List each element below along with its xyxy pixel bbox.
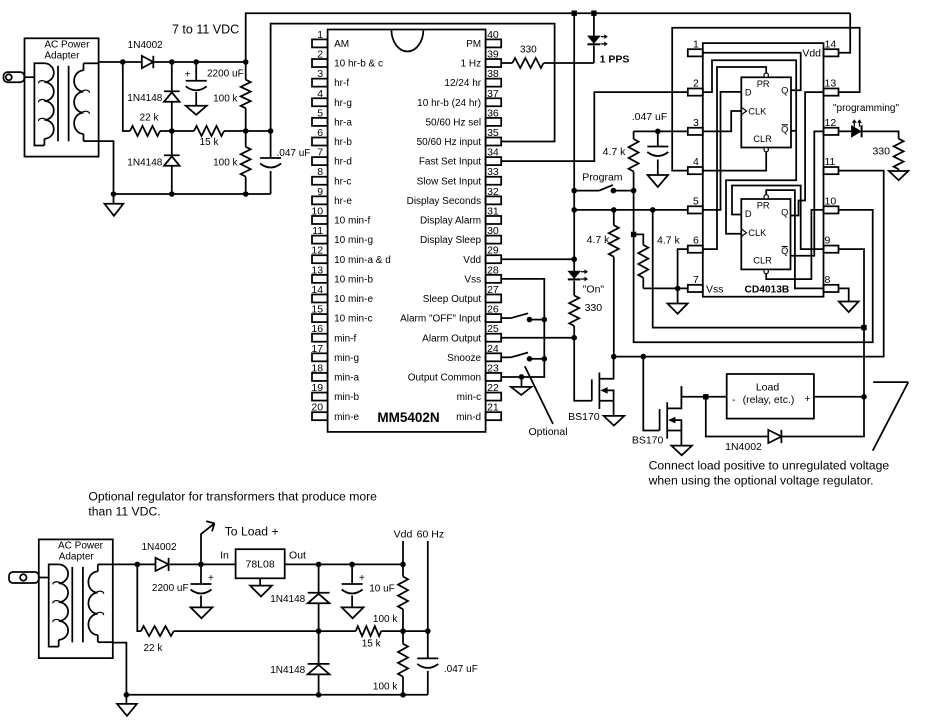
pin 11 U1 label 10 min-g [334, 235, 373, 246]
wire T1 secondary top to rectifier [99, 61, 142, 63]
svg-text:10 hr-b & c: 10 hr-b & c [334, 59, 383, 70]
svg-text:22 k: 22 k [140, 113, 160, 124]
svg-text:Vdd: Vdd [802, 48, 821, 60]
pin 2 U1 box [312, 59, 328, 67]
pin 23 U1 box [486, 373, 502, 381]
wire U2 pin5 to D1 [703, 92, 742, 210]
svg-text:4: 4 [317, 88, 323, 100]
IC U2 CD4013B body [703, 43, 824, 297]
pin 10 U1 box [312, 216, 328, 224]
label R10 330 [872, 146, 890, 158]
svg-text:22 k: 22 k [143, 643, 163, 654]
svg-text:1 Hz: 1 Hz [461, 59, 482, 70]
pin 16 U1 number [311, 323, 323, 335]
node top rail program branch [572, 11, 577, 16]
label C5 10 uF [369, 584, 395, 595]
wire D6 lead [318, 564, 320, 592]
svg-text:33: 33 [487, 166, 499, 178]
svg-text:26: 26 [487, 304, 499, 316]
pin 40 U1 label PM [466, 39, 481, 50]
pin 20 U1 label min-e [334, 412, 359, 423]
diode D2 1N4148 [164, 91, 180, 102]
svg-text:50/60 Hz input: 50/60 Hz input [417, 137, 482, 148]
capacitor C4 2200 uF [191, 564, 215, 607]
svg-text:20: 20 [311, 402, 323, 414]
resistor R8 4.7 k [634, 234, 649, 288]
label R8 4.7 k [657, 235, 681, 247]
to load arrow [201, 521, 215, 564]
svg-text:CLK: CLK [748, 228, 767, 238]
pin 13 U2 number [825, 78, 837, 90]
label Load [756, 381, 780, 393]
svg-text:34: 34 [487, 147, 499, 159]
pin 3 U1 label hr-f [334, 78, 349, 89]
diode D4 1N4002 [768, 430, 781, 443]
label R3 15 k [200, 137, 220, 148]
svg-text:10 min-a & d: 10 min-a & d [334, 255, 391, 266]
pin 5 U1 label hr-a [334, 117, 352, 128]
pin 12 U1 box [312, 255, 328, 263]
svg-text:100 k: 100 k [213, 94, 238, 105]
wire U2 pin1 to Q1 [703, 53, 801, 90]
node top rail LED branch [591, 11, 596, 16]
pin 10 U1 label 10 min-f [334, 216, 370, 227]
LED LED3 programming [839, 125, 862, 137]
svg-text:Vdd: Vdd [394, 529, 413, 541]
node filter +V C [243, 59, 249, 65]
node rail R14 [400, 692, 406, 698]
wire D7 lead [318, 631, 320, 664]
pin 5 U1 number [317, 107, 323, 119]
svg-text:35: 35 [487, 127, 499, 139]
label R13 15 k [362, 639, 382, 650]
wire U2 pin12 to Q2bar [791, 131, 824, 255]
pin 36 U1 box [486, 118, 502, 126]
svg-text:15 k: 15 k [200, 137, 220, 148]
svg-text:3: 3 [317, 68, 323, 80]
pin 30 U1 number [487, 225, 499, 237]
wire osc mid to cap node [246, 130, 271, 132]
wire 22k branch down [123, 62, 130, 131]
svg-text:"programming": "programming" [833, 103, 899, 114]
pin 25 U1 label Alarm Output [422, 333, 481, 344]
pin 33 U1 number [487, 166, 499, 178]
pin 18 U1 number [311, 362, 323, 374]
pin 10 U2 number [825, 195, 837, 207]
diode D3 1N4148 [164, 155, 180, 166]
resistor R5 330 [512, 58, 543, 68]
label U2 Vss [706, 283, 724, 295]
wire 22k line [137, 564, 141, 631]
pin 26 U1 label Alarm "OFF" Input [400, 314, 481, 325]
svg-text:Vss: Vss [464, 274, 481, 285]
label D3 1N4148 [127, 158, 162, 169]
wire S2 to Vss line [530, 358, 545, 360]
svg-text:4: 4 [693, 156, 699, 168]
pin 26 U1 number [487, 304, 499, 316]
pin 15 U1 number [311, 304, 323, 316]
pin 1 U2 box [688, 49, 703, 56]
pin 4 U2 box [688, 167, 703, 174]
T2 label [58, 541, 104, 563]
wire D4 anode loop [706, 397, 769, 437]
pin 38 U1 number [487, 68, 499, 80]
svg-text:2200 uF: 2200 uF [207, 69, 244, 80]
pin 30 U1 box [486, 236, 502, 244]
label Q1 BS170 [568, 411, 600, 423]
wire Vdd label lead [402, 541, 404, 564]
pin 5 U2 box [688, 206, 703, 213]
svg-text:1: 1 [317, 29, 323, 41]
label relay etc [732, 393, 811, 406]
pin 37 U1 box [486, 98, 502, 106]
pin 7 U1 label hr-d [334, 157, 352, 168]
svg-text:28: 28 [487, 264, 499, 276]
svg-text:Display Alarm: Display Alarm [420, 216, 481, 227]
label R6 330 [585, 302, 603, 314]
pin 38 U1 box [486, 79, 502, 87]
wire D5 to In [170, 563, 236, 565]
pin 13 U1 box [312, 275, 328, 283]
pin 35 U1 label 50/60 Hz input [417, 137, 482, 148]
svg-text:50/60 Hz sel: 50/60 Hz sel [426, 117, 482, 128]
node rail D3 [169, 191, 175, 197]
pin 28 U1 label Vss [464, 274, 481, 285]
diode D7 1N4148 [308, 664, 330, 675]
pin 17 U1 label min-g [334, 353, 359, 364]
wire load plus [814, 396, 864, 398]
node pin7 gnd [675, 286, 681, 292]
wire M2 drain to load [681, 386, 726, 397]
svg-text:Load: Load [756, 381, 780, 393]
pin 14 U2 box [824, 49, 839, 56]
svg-text:+: + [185, 70, 191, 81]
svg-text:5: 5 [693, 195, 699, 207]
AC power adapter T2 box [39, 539, 113, 658]
svg-text:40: 40 [487, 29, 499, 41]
pin 25 U1 number [487, 323, 499, 335]
node rail D7 [316, 692, 322, 698]
wire Out to Vdd [285, 563, 403, 565]
svg-text:2: 2 [693, 78, 699, 90]
LED LED1 1 PPS [588, 13, 601, 63]
svg-text:1N4002: 1N4002 [128, 40, 163, 51]
svg-text:15 k: 15 k [362, 639, 382, 650]
node 60Hz line [425, 628, 431, 634]
svg-text:PR: PR [757, 79, 770, 89]
pin 6 U2 box [688, 246, 703, 253]
pin 34 U1 box [486, 157, 502, 165]
svg-text:19: 19 [311, 382, 323, 394]
label Vdd bottom [394, 529, 413, 541]
pin 18 U1 box [312, 373, 328, 381]
node C5 top [349, 562, 355, 568]
AC power adapter T1 box [25, 38, 99, 156]
wire S1 to Vss line [530, 319, 545, 321]
pin 32 U1 box [486, 196, 502, 204]
svg-text:min-d: min-d [456, 412, 481, 423]
svg-text:330: 330 [585, 302, 603, 314]
svg-text:27: 27 [487, 284, 499, 296]
regulator U3 78L08 box [236, 549, 285, 578]
wire U2 pin3 to CLK1 [703, 111, 742, 131]
load box [727, 374, 814, 419]
wire U2 pin14 Vdd [839, 13, 851, 53]
svg-text:Connect load positive to unreg: Connect load positive to unregulated vol… [649, 459, 890, 473]
label optional regulator line2 [88, 504, 160, 518]
flip-flop U2B [741, 195, 790, 274]
pin 14 U1 label 10 min-e [334, 294, 373, 305]
svg-text:(relay, etc.): (relay, etc.) [743, 394, 795, 406]
wire mid node to D3 [171, 131, 173, 155]
pin 9 U1 box [312, 196, 328, 204]
ground U3 [250, 578, 272, 596]
svg-text:MM5402N: MM5402N [377, 410, 439, 425]
node pin23 ground stem [519, 374, 525, 380]
pin 21 U1 number [487, 402, 499, 414]
label 1 PPS [600, 53, 630, 65]
ground pin7 [668, 288, 688, 313]
svg-text:7: 7 [317, 147, 323, 159]
pin 8 U2 number [825, 274, 831, 286]
wire R5 to LED1 [544, 62, 594, 64]
pin 3 U1 box [312, 79, 328, 87]
wire U2 pin8 ext [839, 288, 849, 301]
svg-text:min-g: min-g [334, 353, 359, 364]
wire ground rail [99, 141, 271, 194]
wire program node to pin10 loop [634, 191, 873, 343]
pin 39 U1 box [486, 59, 502, 67]
svg-text:1N4148: 1N4148 [127, 93, 162, 104]
svg-text:Output Common: Output Common [408, 373, 481, 384]
capacitor C5 10 uF [342, 564, 365, 607]
pin 4 U2 number [693, 156, 699, 168]
annotation arrow 7 [873, 382, 909, 451]
svg-text:PM: PM [466, 39, 481, 50]
label C2 .047 uF [277, 148, 311, 159]
wire D1 cathode to filter node [153, 61, 245, 63]
svg-text:min-c: min-c [457, 392, 481, 403]
svg-text:+: + [359, 573, 365, 584]
pin 35 U1 box [486, 138, 502, 146]
wire pin29 Vdd [501, 258, 574, 260]
label D4 1N4002 [725, 441, 762, 453]
svg-text:Snooze: Snooze [447, 353, 481, 364]
pin 1 U1 number [317, 29, 323, 41]
svg-text:min-a: min-a [334, 373, 359, 384]
wire D2 anode lead [171, 62, 173, 91]
node S1 contact [527, 317, 533, 323]
pin 10 U2 box [824, 206, 839, 213]
label C3 .047 uF [632, 111, 668, 123]
pin 12 U2 box [824, 128, 839, 135]
svg-text:Slow Set Input: Slow Set Input [417, 176, 482, 187]
transformer T2 windings [39, 564, 113, 646]
node load minus [703, 394, 708, 399]
svg-text:hr-f: hr-f [334, 78, 349, 89]
resistor R4 100 k bottom [241, 131, 251, 194]
label D5 1N4002 [141, 542, 176, 553]
LED3 arrows [852, 119, 862, 127]
svg-text:330: 330 [872, 146, 890, 158]
label Program [582, 171, 623, 183]
pin 37 U1 number [487, 88, 499, 100]
svg-text:Optional: Optional [528, 426, 567, 438]
svg-text:BS170: BS170 [568, 411, 600, 423]
pin 27 U1 box [486, 294, 502, 302]
pin 22 U1 box [486, 393, 502, 401]
pin 1 U2 number [693, 38, 699, 50]
node diode chain mid [316, 628, 322, 634]
wire U2 pin6 to Vss line [678, 249, 688, 288]
pin 17 U1 number [311, 343, 323, 355]
svg-text:14: 14 [311, 284, 323, 296]
pin 11 U1 box [312, 236, 328, 244]
wire U2 pin8 to PR2 [766, 190, 823, 288]
node pin3 cap [655, 129, 661, 135]
svg-text:3: 3 [693, 117, 699, 129]
pin 18 U1 label min-a [334, 373, 359, 384]
pin 9 U2 number [825, 235, 831, 247]
pin 29 U1 number [487, 245, 499, 257]
resistor R1 22 k [130, 126, 160, 136]
pin 2 U1 label 10 hr-b & c [334, 59, 383, 70]
svg-text:12: 12 [825, 117, 837, 129]
label R14 100 k [373, 682, 398, 693]
pin 7 U1 number [317, 147, 323, 159]
label R9 4.7 k [603, 146, 627, 158]
svg-text:4.7 k: 4.7 k [587, 234, 611, 246]
wire U2 pin9 to D2 [732, 186, 824, 250]
pin 9 U2 box [824, 246, 839, 253]
node R8 tap [631, 232, 636, 237]
pin 2 U1 number [317, 49, 323, 61]
label C6 .047 uF [444, 664, 478, 675]
svg-text:Alarm "OFF" Input: Alarm "OFF" Input [400, 314, 481, 325]
svg-text:AC Power: AC Power [58, 541, 104, 552]
label C1 2200 uF [207, 69, 244, 80]
pin 24 U1 box [486, 353, 502, 361]
wire to 60Hz node [403, 630, 428, 632]
node load plus [861, 394, 867, 400]
pin 5 U1 box [312, 118, 328, 126]
wire Vdd vertical top [573, 13, 575, 271]
pin 6 U1 label hr-b [334, 137, 352, 148]
svg-text:5: 5 [317, 107, 323, 119]
pin 36 U1 label 50/60 Hz sel [426, 117, 482, 128]
resistor R10 330 [894, 139, 904, 171]
resistor R3 15 k [172, 126, 246, 136]
pin 21 U1 box [486, 412, 502, 420]
pin 33 U1 box [486, 177, 502, 185]
wire pin25 Alarm Output [501, 337, 574, 339]
pin 30 U1 label Display Sleep [420, 235, 482, 246]
pin 1 U1 label AM [334, 39, 349, 50]
pin 8 U1 label hr-c [334, 176, 351, 187]
node load plus riser [861, 325, 866, 330]
wire R1 to node [160, 130, 172, 132]
diode D6 1N4148 [308, 593, 330, 604]
label R2 100 k [213, 94, 238, 105]
pin 21 U1 label min-d [456, 412, 481, 423]
svg-text:16: 16 [311, 323, 323, 335]
pin 31 U1 number [487, 205, 499, 217]
pin 35 U1 number [487, 127, 499, 139]
svg-text:min-e: min-e [334, 412, 359, 423]
svg-text:24: 24 [487, 343, 499, 355]
resistor R11 100 k [398, 564, 408, 631]
pin 15 U1 box [312, 314, 328, 322]
ground C4 [191, 607, 213, 618]
label R1 22 k [140, 113, 160, 124]
ground pin23 [511, 377, 532, 395]
LED2 arrows [581, 269, 588, 281]
node filter +V A [169, 59, 175, 65]
transformer T1 windings [34, 63, 98, 145]
wire U2 pin9 ext [839, 249, 865, 397]
pin 6 U2 number [693, 235, 699, 247]
svg-text:"On": "On" [583, 283, 605, 295]
node rail gnd stem [111, 191, 117, 197]
svg-text:min-b: min-b [334, 392, 359, 403]
label connect load line1 [649, 459, 890, 473]
pin 29 U1 label Vdd [463, 255, 481, 266]
pin 5 U2 number [693, 195, 699, 207]
node drain M1 [611, 354, 617, 360]
svg-text:8: 8 [825, 274, 831, 286]
svg-text:hr-b: hr-b [334, 137, 352, 148]
pin 2 U2 number [693, 78, 699, 90]
pin 22 U1 label min-c [457, 392, 481, 403]
label U2 Vdd [802, 48, 821, 60]
svg-text:Adapter: Adapter [44, 51, 80, 62]
pin 13 U1 label 10 min-b [334, 274, 373, 285]
ground C1 [186, 106, 207, 115]
pin 11 U2 box [824, 167, 839, 174]
pin 17 U1 box [312, 353, 328, 361]
svg-text:D: D [745, 87, 752, 97]
node filter +V B [193, 59, 199, 65]
capacitor C2 .047 uF [260, 131, 281, 194]
label U2 CD4013B [745, 284, 790, 295]
wire U2 pin10 to CLR2 [766, 210, 823, 279]
svg-text:Sleep Output: Sleep Output [423, 294, 482, 305]
svg-text:36: 36 [487, 107, 499, 119]
diode D5 1N4002 [156, 558, 169, 571]
svg-text:1N4002: 1N4002 [141, 542, 176, 553]
svg-text:78L08: 78L08 [245, 559, 274, 571]
svg-text:18: 18 [311, 362, 323, 374]
wire bottom rail [113, 643, 428, 695]
svg-text:Fast Set Input: Fast Set Input [419, 157, 481, 168]
svg-text:30: 30 [487, 225, 499, 237]
svg-text:7 to 11 VDC: 7 to 11 VDC [172, 23, 239, 37]
label Out [289, 550, 306, 562]
pin 14 U1 box [312, 294, 328, 302]
svg-text:9: 9 [825, 235, 831, 247]
svg-text:CD4013B: CD4013B [745, 284, 790, 295]
svg-text:10 min-g: 10 min-g [334, 235, 373, 246]
svg-text:Program: Program [582, 171, 623, 183]
pin 9 U1 number [317, 186, 323, 198]
resistor R9 4.7 k [629, 131, 639, 190]
label programming [833, 103, 899, 114]
pin 2 U2 box [688, 88, 703, 95]
LED1 arrows [601, 34, 608, 46]
pin 14 U1 number [311, 284, 323, 296]
svg-text:PR: PR [757, 201, 770, 211]
pin 37 U1 label 10 hr-b (24 hr) [417, 98, 481, 109]
